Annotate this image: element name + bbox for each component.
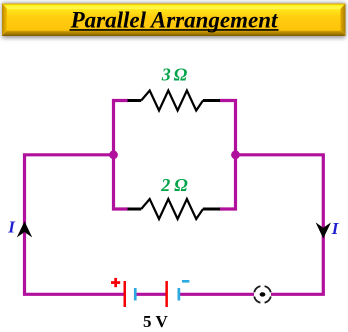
svg-text:Parallel Arrangement: Parallel Arrangement bbox=[70, 7, 278, 32]
svg-text:I: I bbox=[331, 219, 340, 238]
svg-text:2: 2 bbox=[160, 175, 170, 195]
svg-text:5 V: 5 V bbox=[143, 312, 168, 331]
svg-text:Ω: Ω bbox=[174, 65, 188, 85]
svg-text:3: 3 bbox=[161, 65, 171, 85]
svg-text:I: I bbox=[7, 217, 16, 236]
svg-text:Ω: Ω bbox=[174, 175, 188, 195]
